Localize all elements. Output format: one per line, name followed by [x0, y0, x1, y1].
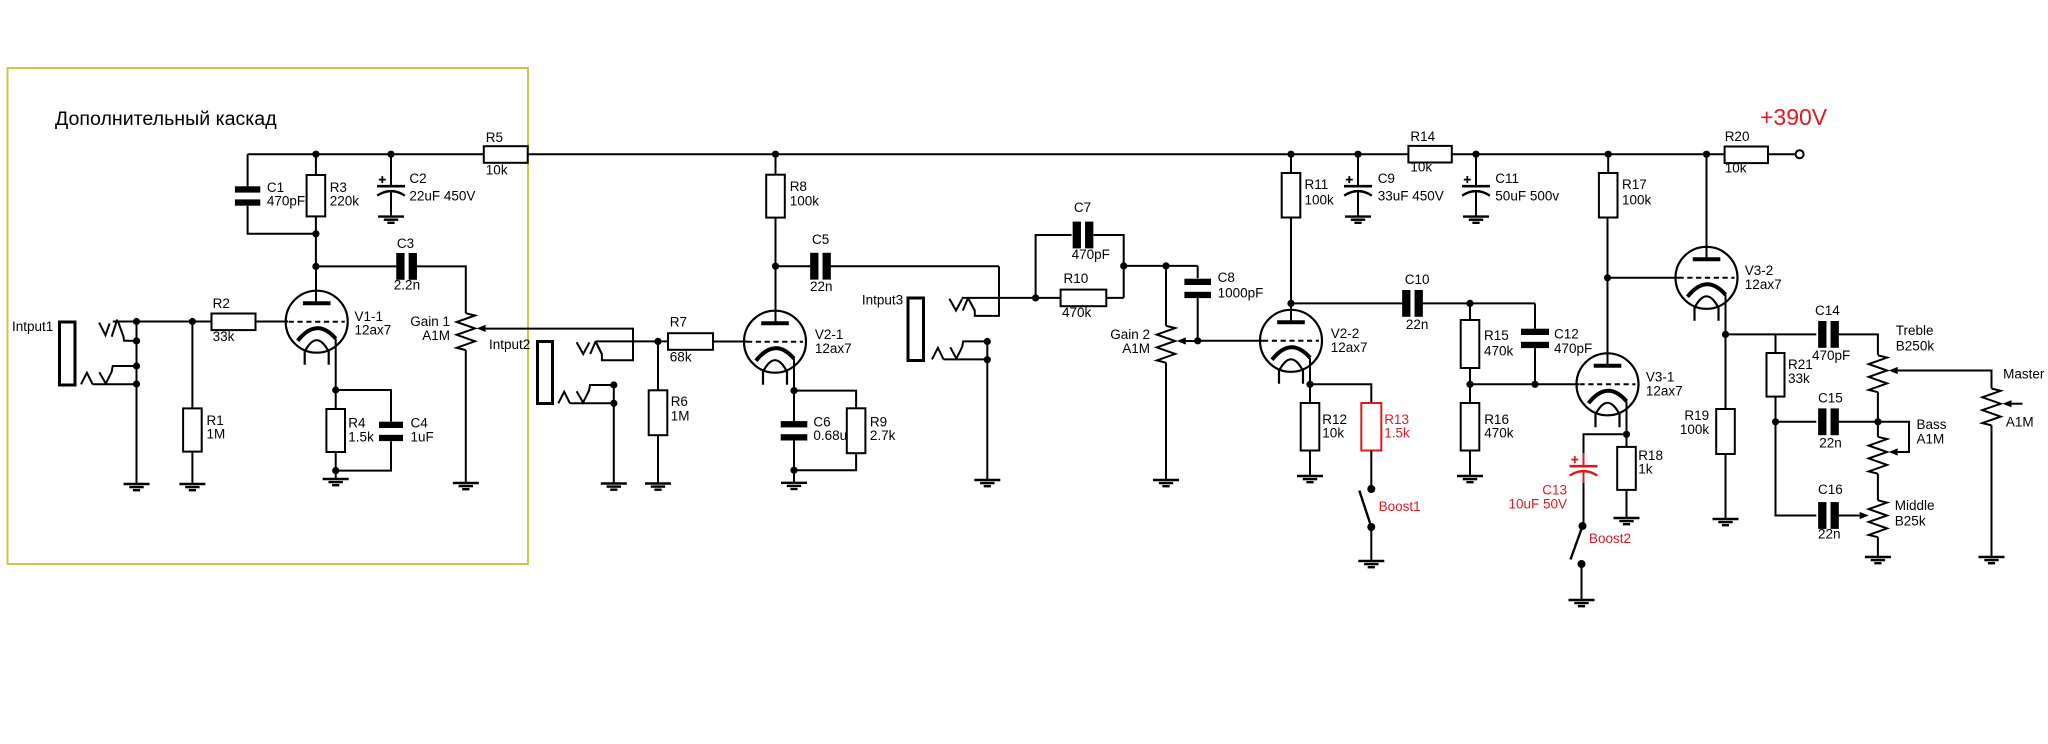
ground R18 [1614, 518, 1640, 524]
label C6 [813, 414, 830, 429]
label R2 value 33k [213, 329, 235, 344]
wire: B+ rail [248, 153, 1796, 155]
node: C8/grid junction [1194, 337, 1201, 344]
wire: C10 right [1423, 302, 1535, 304]
wire: C11 to ground [1475, 192, 1477, 217]
wire: cathode to C6 [793, 391, 795, 422]
label R20 [1725, 129, 1750, 144]
label C14 [1815, 303, 1840, 318]
tube V3-2 (triode) [1676, 247, 1738, 321]
svg-text:33uF 450V: 33uF 450V [1378, 188, 1444, 203]
ground jack2 [601, 484, 627, 490]
wire: cathode to R19 [1725, 334, 1727, 409]
wire: R17 to V3-1 plate [1607, 218, 1609, 366]
wire: R21 bottom lead [1775, 397, 1777, 422]
label R9 [870, 414, 887, 429]
svg-text:470k: 470k [1484, 344, 1514, 359]
label R12 [1322, 412, 1347, 427]
bass wiper arrow [1889, 448, 1898, 455]
svg-text:1000pF: 1000pF [1218, 285, 1264, 300]
node: R15 top junction [1466, 300, 1473, 307]
svg-text:Intput1: Intput1 [12, 319, 53, 334]
svg-text:0.68u: 0.68u [813, 428, 847, 443]
wire: to ground V2-1 [793, 470, 795, 483]
label C15 value 22n [1819, 436, 1842, 451]
wire: junction to R1 [191, 322, 193, 409]
svg-text:Intput2: Intput2 [489, 337, 530, 352]
wire: rail to R3 [315, 154, 317, 175]
svg-text:R19: R19 [1684, 408, 1709, 423]
wire: V2-1 cathode lead [793, 359, 795, 391]
label R4 [348, 416, 366, 431]
wire: C9 to ground [1357, 192, 1359, 217]
middle wiper arrow [1860, 512, 1869, 519]
label R12 value 10k [1322, 426, 1344, 441]
jack1 ring contact hat [81, 373, 93, 385]
node: R10/C7 left junction [1032, 294, 1039, 301]
svg-text:V3-2: V3-2 [1745, 263, 1774, 278]
capacitor C12 [1521, 329, 1549, 348]
wire: Gain1 wiper loop to jack2 [485, 329, 633, 361]
capacitor C5 [810, 253, 831, 280]
resistor R16 [1461, 403, 1480, 451]
label C2 value 22uF 450V [409, 188, 475, 203]
svg-text:1k: 1k [1638, 462, 1653, 477]
label Intput2 [489, 337, 530, 352]
wire: cathode to R18 [1626, 434, 1628, 447]
resistor R5 [484, 146, 528, 163]
node: rail junction R11 top [1287, 151, 1294, 158]
svg-text:Bass: Bass [1917, 417, 1947, 432]
label V2-2 [1331, 326, 1360, 341]
svg-text:A1M: A1M [1917, 432, 1945, 447]
label C13 [1542, 483, 1567, 498]
svg-text:220k: 220k [330, 194, 360, 209]
label C9 [1378, 171, 1395, 186]
jack2 ring contact hat [558, 392, 570, 404]
label C3 [397, 236, 414, 251]
wire: rail to C9 [1357, 154, 1359, 186]
wire: to V2-2 grid [1198, 340, 1263, 342]
node: rail junction C11 top [1472, 151, 1479, 158]
wire: R13 to switch [1370, 451, 1372, 490]
node: C10 tap junction [1287, 300, 1294, 307]
wire: Master to ground [1991, 425, 1993, 557]
label C7 value 470pF [1072, 247, 1110, 262]
node: V1-1 cathode junction [332, 386, 339, 393]
svg-text:12ax7: 12ax7 [1646, 383, 1683, 398]
wire: Bass bottom to Middle [1877, 474, 1879, 501]
node: Treble bottom junction [1874, 418, 1881, 425]
tube V2-1 (triode) [744, 311, 806, 385]
wire: V1-1 grid lead [256, 321, 289, 323]
wire: Boost1 to ground [1370, 527, 1372, 561]
svg-text:1uF: 1uF [411, 429, 434, 444]
node: V2-2 cathode junction [1306, 381, 1313, 388]
label Intput1 [12, 319, 53, 334]
wire: cathode node to C4 [336, 390, 391, 422]
svg-text:C9: C9 [1378, 171, 1395, 186]
wire: V1-1 plate lead [315, 266, 317, 303]
ground V1-1 cathode [323, 479, 349, 485]
label Middle [1895, 498, 1935, 513]
svg-text:C14: C14 [1815, 303, 1840, 318]
label C11 [1495, 171, 1519, 186]
wire: C5 loop to jack3 [968, 266, 999, 316]
resistor R21 [1767, 353, 1785, 397]
wire: R19 to ground [1725, 454, 1727, 519]
svg-text:C5: C5 [812, 232, 829, 247]
svg-text:22uF 450V: 22uF 450V [409, 188, 475, 203]
jack1 tip switch blade [112, 319, 118, 336]
svg-text:R11: R11 [1305, 177, 1329, 192]
wire: C15 to node [1839, 421, 1878, 423]
label R6 [671, 394, 688, 409]
master wiper arrow [2003, 400, 2023, 407]
treble wiper arrow [1889, 367, 1898, 374]
wire: rail to R17 [1607, 154, 1609, 173]
label +390V [1760, 104, 1828, 130]
ground jack1 [124, 484, 150, 490]
label R17 [1622, 177, 1647, 192]
svg-text:R8: R8 [790, 179, 807, 194]
wire: rail to C2 [390, 154, 392, 186]
node: rail junction C2 top [387, 151, 394, 158]
wire: jack2 tip to R7 node [596, 340, 668, 342]
label R15 value 470k [1484, 344, 1514, 359]
node: jack2 ring dots [610, 381, 617, 407]
svg-text:100k: 100k [1680, 422, 1710, 437]
wire: R21 to C15 [1776, 421, 1817, 423]
jack2 tip contact V [577, 342, 590, 354]
node: R21 bottom junction [1772, 418, 1779, 425]
label C16 [1818, 482, 1843, 497]
svg-text:C13: C13 [1542, 483, 1567, 498]
resistor R15 [1461, 320, 1480, 368]
label R16 value 470k [1484, 426, 1514, 441]
label Gain 1 value A1M [422, 328, 450, 343]
svg-text:1M: 1M [671, 408, 690, 423]
label C11 value 50uF 500v [1495, 188, 1559, 203]
svg-text:R6: R6 [671, 394, 688, 409]
wire: cathode to R12 [1309, 384, 1311, 403]
label R19 [1684, 408, 1709, 423]
wire: V3-2 cathode lead [1725, 295, 1727, 335]
wire: C4 bottom [336, 441, 391, 471]
label C1 value 470pF [267, 194, 305, 209]
label R5 value 10k [486, 163, 508, 178]
resistor R10 [1061, 290, 1107, 307]
wire: Gain2 top lead [1165, 266, 1167, 326]
wire: rail to R11 [1290, 154, 1292, 173]
terminal: output [1796, 150, 1804, 158]
svg-text:+390V: +390V [1760, 104, 1828, 130]
label Treble [1896, 323, 1934, 338]
frame: additional-cascade box [8, 68, 529, 564]
label V2-2 type 12ax7 [1331, 340, 1368, 355]
wire: jack1 tip to R2 [113, 321, 212, 323]
ground Gain2 [1153, 480, 1179, 486]
label C9 value 33uF 450V [1378, 188, 1444, 203]
svg-text:C10: C10 [1405, 272, 1430, 287]
label C10 value 22n [1406, 317, 1429, 332]
svg-text:R15: R15 [1484, 328, 1509, 343]
ground Master [1979, 557, 2005, 563]
resistor R19 [1716, 409, 1735, 454]
label R13 [1384, 412, 1409, 427]
svg-text:100k: 100k [1305, 193, 1335, 208]
capacitor C4 [379, 422, 403, 441]
svg-text:1M: 1M [207, 427, 226, 442]
svg-text:Boost1: Boost1 [1379, 499, 1421, 514]
jack3 ring lead [944, 358, 988, 360]
ground R1 [179, 484, 205, 490]
label C12 value 470pF [1554, 341, 1592, 356]
wire: Gain1 bottom to ground [465, 350, 467, 483]
ground Middle [1865, 557, 1891, 563]
resistor R9 [847, 408, 866, 453]
svg-text:R7: R7 [670, 315, 687, 330]
label R13 value 1.5k [1384, 426, 1410, 441]
potentiometer Gain 2 [1157, 326, 1175, 363]
capacitor C8 [1184, 279, 1211, 298]
wire: R11 to V2-2 plate [1290, 218, 1292, 323]
resistor R18 [1617, 447, 1636, 490]
wire: jack3 tip to R10 node [962, 297, 1061, 299]
label Middle value B25k [1895, 513, 1926, 528]
svg-text:Treble: Treble [1896, 323, 1934, 338]
resistor R13 [1361, 403, 1381, 451]
label C8 value 1000pF [1218, 285, 1264, 300]
node: C1/R3 junction [312, 230, 319, 237]
node: jack1 tip lead dot [133, 337, 140, 344]
ground R19 [1713, 519, 1739, 525]
wire: V3-1 cathode lead [1626, 401, 1628, 434]
label Master [2003, 367, 2045, 382]
jack1 ring lead [93, 383, 137, 385]
wire: C12 top lead [1534, 303, 1536, 328]
node: C6/R9 bottom junction [790, 467, 797, 474]
label V3-1 type 12ax7 [1646, 383, 1683, 398]
wire: junction to R6 [657, 341, 659, 390]
jack3 tip bent lead [969, 300, 975, 311]
wire: C6 bottom [793, 441, 795, 471]
wire: node up to C7 [1036, 235, 1072, 298]
node: rail junction C9 top [1354, 151, 1361, 158]
jack1 ring contact blade [99, 366, 136, 384]
wire: bass rheostat loop [1878, 422, 1909, 452]
wire: cathode to C13 [1584, 434, 1627, 453]
jack3 tip contact V [949, 299, 962, 311]
svg-text:33k: 33k [213, 329, 235, 344]
label Gain 2 [1110, 327, 1150, 342]
wire: cathode to C14 [1726, 333, 1817, 335]
node: C7/R10 right junction [1120, 262, 1127, 269]
capacitor C7 [1073, 222, 1094, 249]
tube V2-2 (triode) [1260, 310, 1322, 384]
label Bass value A1M [1917, 432, 1945, 447]
potentiometer Master [1982, 389, 2000, 426]
label R8 value 100k [790, 193, 820, 208]
svg-text:12ax7: 12ax7 [1331, 340, 1368, 355]
svg-text:V2-2: V2-2 [1331, 326, 1360, 341]
capacitor C1 [235, 186, 260, 205]
label C15 [1818, 391, 1843, 406]
wire: C1 bottom to R3 bottom node [248, 206, 316, 234]
svg-text:R20: R20 [1725, 129, 1750, 144]
label C10 [1405, 272, 1430, 287]
node: R21 top junction (T) [0, 0, 1, 1]
switch Boost1 [1359, 485, 1375, 531]
svg-text:12ax7: 12ax7 [815, 341, 852, 356]
svg-text:2.2n: 2.2n [394, 277, 420, 292]
svg-text:C11: C11 [1495, 171, 1519, 186]
node: rail junction R17 top [1605, 151, 1612, 158]
wire: treble wiper to Master [1898, 371, 1992, 389]
wire: gain2 wiper shaft [1186, 340, 1198, 342]
resistor R2 [212, 314, 256, 331]
node: V3-2 cathode junction [1722, 331, 1729, 338]
svg-text:C3: C3 [397, 236, 414, 251]
label V3-1 [1646, 370, 1675, 385]
wire: C13 bottom lead (red) [1583, 472, 1585, 483]
wire: Treble bottom [1877, 392, 1879, 437]
jack3 tip switch blade [963, 298, 969, 311]
label R10 value 470k [1062, 305, 1092, 320]
label V1-1 type 12ax7 [355, 323, 392, 338]
node: C12 bottom junction [1531, 381, 1538, 388]
ground Gain1 [453, 483, 479, 489]
node: R6/R7 junction [654, 338, 661, 345]
wire: C14 to Treble [1839, 334, 1878, 354]
node: C5 tap junction [772, 263, 779, 270]
wire: rail to R8 [775, 154, 777, 175]
svg-text:Boost2: Boost2 [1589, 531, 1631, 546]
label Boost1 [1379, 499, 1421, 514]
label R20 value 10k [1725, 161, 1747, 176]
svg-text:V2-1: V2-1 [815, 327, 844, 342]
label R5 [486, 130, 503, 145]
resistor R14 [1408, 146, 1451, 163]
label R4 value 1.5k [348, 429, 374, 444]
switch Boost2 [1571, 522, 1587, 568]
label R6 value 1M [671, 408, 690, 423]
svg-text:Gain 2: Gain 2 [1110, 327, 1150, 342]
svg-text:R18: R18 [1638, 448, 1663, 463]
wire: C3 to Gain1 [417, 266, 466, 313]
node: rail junction V3-2 plate [1703, 151, 1710, 158]
wire: C13 top lead (red) [1583, 453, 1585, 466]
label Master value A1M [2006, 415, 2034, 430]
node: V2-1 cathode junction [790, 387, 797, 394]
wire: jack2 bus to ground [613, 385, 615, 484]
svg-text:C8: C8 [1218, 270, 1235, 285]
ground V2-1 cathode [781, 483, 807, 489]
label R1 [207, 413, 224, 428]
ground C11 [1463, 217, 1489, 223]
label Gain 1 [410, 314, 450, 329]
svg-text:Middle: Middle [1895, 498, 1935, 513]
jack2 ring contact blade [577, 385, 614, 403]
label Gain 2 value A1M [1122, 341, 1150, 356]
ground R16 [1457, 476, 1483, 482]
gain2 wiper arrow [1177, 337, 1186, 344]
label R3 value 220k [330, 194, 360, 209]
label C13 value 10uF 50V [1508, 497, 1567, 512]
svg-text:10k: 10k [486, 163, 508, 178]
label V2-1 type 12ax7 [815, 341, 852, 356]
wire: node down to C8 [1197, 266, 1199, 278]
potentiometer Middle [1869, 500, 1887, 537]
jack3 ring contact blade [950, 341, 987, 358]
svg-text:2.7k: 2.7k [870, 428, 896, 443]
wire: cathode node to R9 [794, 391, 856, 409]
wire: V3-2 plate to rail [1706, 154, 1708, 259]
svg-text:22n: 22n [1818, 527, 1841, 542]
wire: C16 to Middle wiper [1839, 515, 1860, 517]
label C2 [409, 171, 426, 186]
svg-text:C7: C7 [1074, 200, 1091, 215]
label R15 [1484, 328, 1509, 343]
jack1 tip bent lead [118, 322, 136, 341]
label R11 value 100k [1305, 193, 1335, 208]
node: rail junction R3 top [312, 151, 319, 158]
label C5 value 22n [810, 279, 833, 294]
label R10 [1064, 271, 1089, 286]
wire: R4 bottom [335, 452, 337, 471]
jack2 tip bent lead [596, 343, 602, 354]
svg-text:22n: 22n [810, 279, 833, 294]
label Treble value B250k [1896, 339, 1935, 354]
ground Boost2 [1569, 600, 1595, 606]
label V1-1 [355, 309, 384, 324]
wire: R9 bottom [794, 453, 856, 470]
node: V3-1 cathode junction [1623, 431, 1630, 438]
connector Intput1 jack body [60, 322, 76, 385]
svg-text:A1M: A1M [422, 328, 450, 343]
wire: V1-1 cathode lead [335, 339, 337, 390]
wire: jack3 bus to ground [986, 342, 988, 481]
svg-text:Gain 1: Gain 1 [410, 314, 450, 329]
svg-text:R14: R14 [1410, 129, 1435, 144]
capacitor C3 [396, 253, 417, 280]
label C8 [1218, 270, 1235, 285]
label R17 value 100k [1622, 193, 1652, 208]
label R7 value 68k [670, 349, 692, 364]
label R1 value 1M [207, 427, 226, 442]
wire: R1 to ground [191, 452, 193, 484]
label C5 [812, 232, 829, 247]
jack2 ring lead [570, 402, 614, 404]
capacitor C6 [781, 421, 808, 440]
wire: to Gain2/C8 [1124, 265, 1198, 267]
capacitor C9 [1344, 176, 1372, 196]
svg-text:470pF: 470pF [1072, 247, 1110, 262]
svg-text:R17: R17 [1622, 177, 1647, 192]
resistor R3 [307, 175, 326, 216]
connector Intput3 jack body [908, 298, 924, 361]
resistor R4 [326, 409, 345, 452]
label C4 value 1uF [411, 429, 434, 444]
wire: C12 bottom lead [1534, 348, 1536, 384]
wire: R12 to ground [1309, 451, 1311, 477]
capacitor C10 [1402, 290, 1423, 317]
label C1 [267, 180, 284, 195]
svg-text:12ax7: 12ax7 [1745, 277, 1782, 292]
label R18 value 1k [1638, 462, 1653, 477]
label R21 value 33k [1788, 371, 1810, 386]
svg-text:R21: R21 [1788, 357, 1813, 372]
